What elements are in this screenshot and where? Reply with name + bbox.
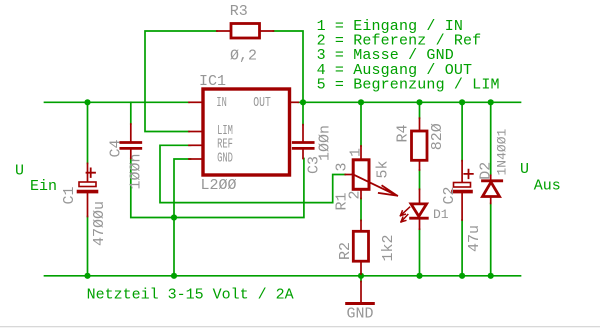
capacitor C4 (121, 124, 141, 159)
capacitor C3 (293, 125, 313, 159)
svg-text:L2ØØ: L2ØØ (201, 177, 237, 194)
LED emission arrows (400, 207, 409, 216)
node D2 bottom junction (488, 273, 494, 279)
node D2 top junction (488, 99, 494, 105)
svg-text:IC1: IC1 (199, 73, 226, 90)
diode D2 (490, 175, 492, 179)
node C2 bottom junction (459, 273, 465, 279)
svg-text:D2: D2 (477, 162, 494, 180)
svg-text:82Ø: 82Ø (429, 123, 446, 150)
svg-text:Ein: Ein (30, 178, 57, 195)
wire D1 to bottom rail (419, 229, 421, 276)
node C2 top junction (459, 99, 465, 105)
svg-text:D1: D1 (433, 207, 449, 222)
wire gnd symbol stem (360, 276, 362, 282)
wire top output rail (298, 101, 520, 103)
svg-text:1N4ØØ1: 1N4ØØ1 (495, 128, 510, 175)
svg-text:3: 3 (333, 162, 350, 171)
wire C4 to gnd net (131, 159, 304, 218)
capacitor C2 (453, 161, 473, 220)
svg-text:1k2: 1k2 (380, 234, 397, 261)
pot wiper arrow (352, 174, 397, 196)
pin IN stub (189, 101, 203, 103)
op-amp U1 IC1 L200 box (203, 89, 290, 175)
svg-text:1ØØn: 1ØØn (128, 153, 145, 189)
node pot pin1 junction (358, 99, 364, 105)
svg-text:1: 1 (348, 148, 365, 157)
wire REF to pot wiper (160, 145, 345, 202)
wire C3 top from OUT junction (302, 102, 304, 124)
wire R3 loop (LIM to OUT) (145, 31, 303, 132)
wire pot pin1 from output rail (360, 102, 362, 146)
svg-text:R3: R3 (230, 3, 248, 20)
node C1 bottom junction (84, 273, 90, 279)
wire R4 to D1 (419, 170, 421, 189)
svg-text:R4: R4 (395, 124, 412, 142)
svg-text:GND: GND (217, 150, 233, 166)
node OUT junction (300, 99, 306, 105)
wire C4 branch top (130, 102, 132, 124)
svg-text:Netzteil 3-15 Volt / 2A: Netzteil 3-15 Volt / 2A (87, 287, 294, 304)
svg-text:OUT: OUT (253, 95, 270, 111)
pin OUT stub (290, 101, 299, 103)
wire C1 branch top (87, 102, 89, 163)
capacitor C1 (79, 163, 97, 216)
wire R2 to bottom rail (360, 274, 362, 276)
potentiometer R1 (360, 146, 362, 160)
wire top input rail (45, 101, 190, 103)
resistor R4 (419, 118, 421, 131)
pin REF stub (189, 144, 203, 146)
node C1 top junction (84, 99, 90, 105)
svg-text:47ØØu: 47ØØu (91, 201, 108, 246)
wire R4 top (419, 102, 421, 118)
svg-text:C2: C2 (441, 186, 458, 204)
wire bottom ground rail (45, 275, 521, 277)
node gnd wire bottom junction (171, 273, 177, 279)
svg-text:5 = Begrenzung / LIM: 5 = Begrenzung / LIM (317, 77, 500, 94)
pin GND stub (189, 158, 203, 160)
resistor R3 (217, 30, 274, 32)
wire GND pin to bottom rail (174, 159, 191, 276)
wire D2 top (490, 102, 492, 175)
wire pot pin2 to R2 (360, 199, 362, 221)
node gnd net cross junction (171, 214, 177, 220)
bottom page divider line (0, 326, 600, 327)
svg-text:U: U (15, 163, 24, 180)
pin LIM stub (189, 131, 203, 133)
wire D2 bottom (490, 203, 492, 275)
svg-text:U: U (520, 161, 529, 178)
svg-text:Ø,2: Ø,2 (230, 48, 257, 65)
svg-text:R1: R1 (333, 192, 350, 210)
node R4 top junction (416, 99, 422, 105)
wire C2 bottom (461, 220, 463, 276)
svg-text:IN: IN (216, 95, 226, 111)
wire C1 branch bottom (87, 217, 89, 276)
svg-text:C1: C1 (61, 186, 78, 204)
svg-text:C4: C4 (108, 139, 125, 157)
wire C2 top (461, 102, 463, 160)
LED D1 (419, 189, 421, 204)
ground (360, 282, 362, 303)
node R2 gnd junction (358, 273, 364, 279)
resistor R2 (360, 220, 362, 231)
svg-text:5k: 5k (375, 160, 392, 178)
svg-text:GND: GND (347, 306, 374, 323)
svg-text:R2: R2 (337, 242, 354, 260)
svg-text:1ØØn: 1ØØn (316, 125, 333, 161)
svg-text:47u: 47u (466, 225, 483, 252)
svg-text:Aus: Aus (534, 178, 561, 195)
node D1 bottom junction (416, 273, 422, 279)
